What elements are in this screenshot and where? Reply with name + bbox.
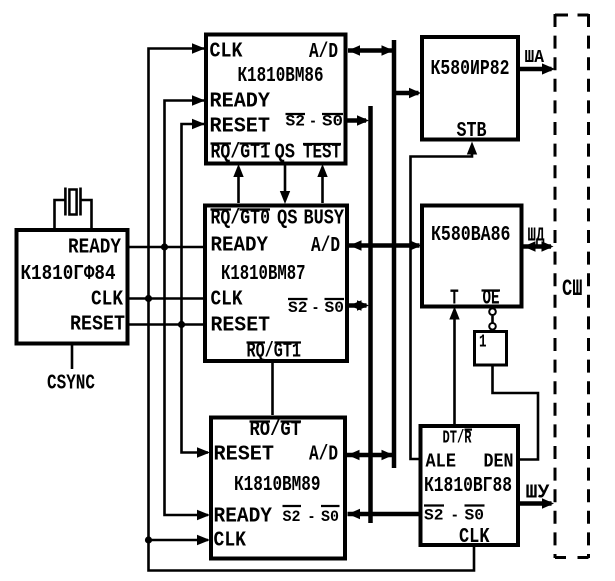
svg-text:S0: S0 [321, 508, 339, 526]
svg-text:1: 1 [479, 333, 487, 353]
svg-text:RESET: RESET [70, 314, 125, 337]
svg-text:К580ВА86: К580ВА86 [431, 224, 511, 247]
svg-text:-: - [312, 299, 320, 317]
svg-text:RESET: RESET [211, 315, 271, 338]
svg-text:STB: STB [457, 120, 487, 143]
svg-text:СШ: СШ [562, 276, 583, 302]
svg-text:S0: S0 [325, 299, 345, 317]
svg-text:RO/GT: RO/GT [250, 419, 302, 442]
svg-text:READY: READY [68, 237, 121, 260]
svg-text:RESET: RESET [214, 444, 275, 467]
svg-text:CLK: CLK [210, 41, 243, 64]
svg-text:DEN: DEN [484, 451, 514, 473]
svg-text:К1810ГФ84: К1810ГФ84 [21, 263, 116, 286]
svg-text:-: - [451, 507, 460, 525]
svg-text:-: - [309, 113, 317, 131]
svg-text:S0: S0 [322, 113, 343, 131]
svg-text:DT/R: DT/R [443, 429, 472, 449]
svg-text:CLK: CLK [91, 289, 123, 312]
svg-text:ШД: ШД [528, 225, 545, 247]
svg-text:-: - [308, 508, 316, 526]
svg-text:A/D: A/D [309, 41, 338, 64]
svg-text:ШУ: ШУ [526, 482, 551, 504]
svg-text:READY: READY [211, 235, 269, 258]
svg-text:CLK: CLK [214, 530, 247, 553]
svg-text:К1810ВМ87: К1810ВМ87 [221, 263, 306, 286]
svg-text:RQ/GT0: RQ/GT0 [211, 208, 271, 231]
svg-text:ША: ША [525, 48, 545, 68]
svg-text:RQ/GT1: RQ/GT1 [247, 341, 302, 364]
svg-text:К580ИР82: К580ИР82 [431, 58, 510, 81]
svg-text:S2: S2 [288, 299, 308, 317]
svg-text:READY: READY [210, 91, 271, 114]
svg-text:S2: S2 [286, 113, 306, 131]
svg-text:A/D: A/D [311, 235, 340, 258]
svg-text:К1810ВМ89: К1810ВМ89 [234, 474, 321, 497]
svg-text:S2: S2 [283, 508, 301, 526]
svg-text:RQ/GT1: RQ/GT1 [211, 142, 271, 165]
svg-text:A/D: A/D [309, 444, 338, 467]
svg-text:S0: S0 [465, 507, 485, 525]
svg-text:CLK: CLK [211, 289, 243, 312]
svg-text:QS: QS [275, 142, 296, 165]
svg-text:TEST: TEST [303, 142, 341, 165]
svg-text:BUSY: BUSY [304, 208, 345, 231]
svg-text:QS: QS [277, 208, 298, 231]
svg-text:К1810ВМ86: К1810ВМ86 [238, 65, 324, 88]
svg-text:S2: S2 [424, 507, 444, 525]
svg-text:READY: READY [214, 506, 273, 529]
svg-text:RESET: RESET [210, 116, 271, 139]
svg-text:CLK: CLK [459, 526, 490, 549]
svg-text:OE: OE [483, 288, 500, 311]
svg-text:К1810ВГ88: К1810ВГ88 [424, 475, 512, 498]
svg-text:ALE: ALE [426, 451, 457, 473]
svg-text:T: T [450, 288, 459, 311]
svg-text:CSYNC: CSYNC [47, 373, 95, 396]
